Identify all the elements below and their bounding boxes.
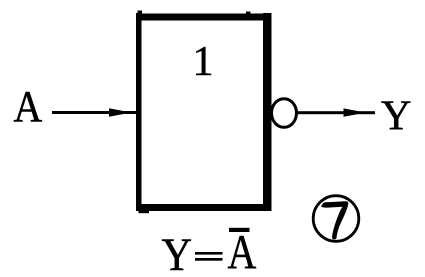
svg-text:1: 1	[193, 39, 214, 85]
svg-text:Y: Y	[162, 229, 193, 277]
svg-text:A: A	[14, 82, 43, 131]
svg-text:Y: Y	[381, 94, 411, 140]
svg-text:A: A	[228, 224, 257, 277]
